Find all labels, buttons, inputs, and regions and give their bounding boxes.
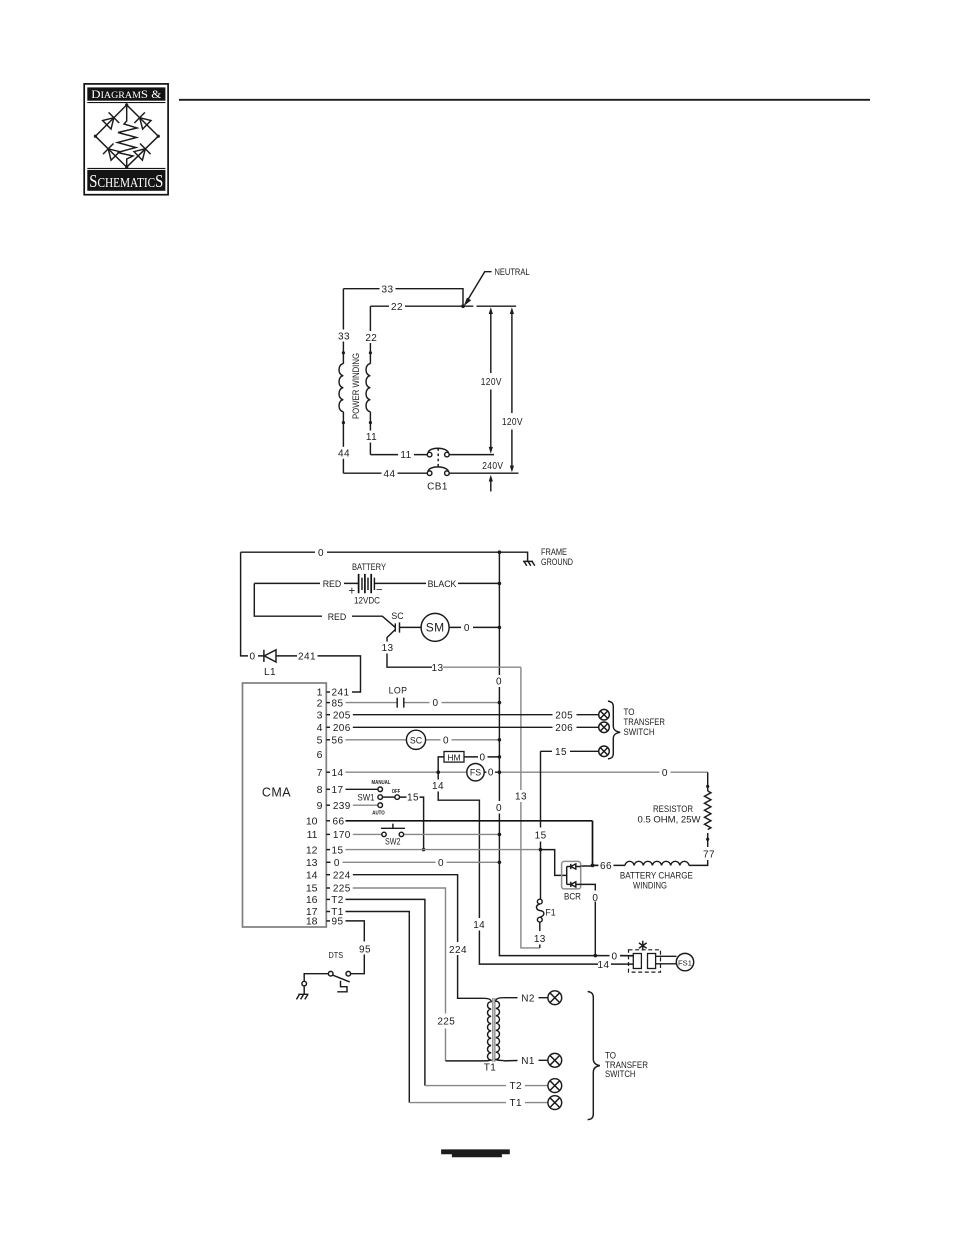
pin 9 wire 239 (326, 804, 330, 806)
wire 14 into FS1 box (611, 963, 633, 965)
svg-text:TO: TO (624, 707, 635, 717)
wire 0 from HM to bus (464, 756, 499, 758)
wire 33 left vertical (342, 289, 344, 474)
svg-text:GROUND: GROUND (541, 557, 573, 567)
junction dot BLACK/bus (498, 582, 502, 586)
frame ground symbol (523, 561, 535, 565)
svg-text:9: 9 (317, 800, 323, 812)
svg-text:13: 13 (432, 663, 444, 674)
svg-text:CMA: CMA (262, 786, 291, 800)
svg-text:7: 7 (317, 767, 323, 779)
lamp terminal T2 (548, 1079, 562, 1093)
wire 0 battery ground top (241, 552, 528, 561)
wire 13 vertical long (521, 667, 540, 948)
svg-text:15: 15 (535, 830, 547, 841)
svg-text:239: 239 (333, 801, 351, 812)
winding B (22-11) of power winding (366, 364, 370, 412)
pin 5 wire 56 + SC coil (326, 739, 330, 741)
svg-text:0: 0 (433, 698, 439, 709)
asterisk (639, 941, 647, 951)
junction dot 66 (591, 864, 595, 868)
wire T1 (409, 1102, 548, 1104)
svg-text:56: 56 (332, 736, 344, 747)
wire RED to SC contact (254, 583, 395, 627)
wire N2 (503, 997, 548, 999)
logo outer border (84, 84, 168, 195)
svg-text:F1: F1 (545, 907, 555, 917)
junction dot 0/frame ground (498, 550, 502, 554)
svg-text:SWITCH: SWITCH (605, 1069, 636, 1079)
svg-text:SM: SM (426, 621, 445, 635)
svg-text:3: 3 (317, 709, 323, 721)
svg-text:0: 0 (334, 858, 340, 869)
svg-text:0: 0 (480, 752, 486, 763)
svg-text:224: 224 (449, 945, 467, 956)
lamp terminal T1 (548, 1096, 562, 1110)
svg-text:POWER WINDING: POWER WINDING (351, 353, 361, 419)
junction dot SW1-15 (422, 848, 426, 852)
svg-text:TRANSFER: TRANSFER (624, 717, 666, 727)
resistor R (0.5 OHM 25W) (707, 772, 709, 791)
junction dot 0/bus (498, 861, 502, 865)
svg-text:205: 205 (333, 710, 351, 721)
svg-text:14: 14 (332, 768, 344, 779)
label TO TRANSFER SWITCH (lower) (605, 1051, 648, 1079)
svg-text:15: 15 (555, 747, 567, 758)
label 33 (vertical) (336, 330, 350, 342)
svg-text:95: 95 (332, 917, 344, 928)
svg-text:10: 10 (306, 816, 318, 828)
svg-text:16: 16 (306, 894, 318, 906)
pin 3 wire 205 (326, 714, 330, 716)
brace TO TRANSFER SWITCH (lower) (588, 992, 600, 1120)
svg-text:−: − (376, 585, 383, 597)
svg-text:BCR: BCR (564, 891, 581, 901)
svg-text:224: 224 (333, 870, 351, 881)
svg-text:FS: FS (470, 768, 481, 778)
junction dot LOP/bus (498, 701, 502, 705)
battery plates (359, 574, 372, 593)
svg-text:OFF: OFF (392, 789, 401, 795)
logo diode top-left (103, 112, 120, 129)
svg-text:44: 44 (384, 469, 396, 480)
svg-text:N2: N2 (521, 993, 535, 1004)
svg-text:240V: 240V (482, 461, 503, 472)
CMA pin numbers 1-18 (306, 687, 323, 928)
svg-text:RED: RED (323, 579, 342, 589)
svg-text:33: 33 (382, 284, 394, 295)
svg-text:AUTO: AUTO (372, 811, 385, 817)
junction dot SM/bus (498, 626, 502, 630)
wire 0 from FS to bus (484, 771, 499, 773)
logo diode top-right (134, 112, 151, 129)
wire BCR top to junction (581, 864, 598, 867)
junction dot 33 winding top (342, 351, 345, 354)
coil SC (406, 730, 425, 749)
svg-text:12: 12 (306, 844, 318, 856)
svg-text:120V: 120V (481, 377, 502, 388)
svg-text:22: 22 (365, 333, 377, 344)
svg-text:CB1: CB1 (427, 482, 448, 493)
svg-text:11: 11 (400, 450, 411, 461)
wire 241 to CMA pin1 (318, 656, 361, 692)
wire 0 into FS1 box (620, 955, 633, 957)
label 44 (vertical) (337, 447, 351, 459)
wire 22 vertical (369, 306, 371, 454)
svg-text:18: 18 (306, 916, 318, 928)
svg-text:8: 8 (317, 784, 323, 796)
svg-text:0: 0 (464, 623, 470, 634)
node NEUTRAL junction dot (461, 304, 465, 308)
svg-text:225: 225 (437, 1017, 455, 1028)
svg-text:RESISTOR: RESISTOR (653, 804, 693, 814)
svg-text:BATTERY: BATTERY (352, 562, 386, 572)
wire 66 corner from pin10 (592, 821, 594, 866)
svg-text:WINDING: WINDING (633, 880, 667, 890)
motor SM (421, 613, 449, 641)
transformer T1 core (493, 998, 495, 1062)
label 33 (horizontal) (380, 283, 396, 294)
svg-text:SWITCH: SWITCH (624, 727, 655, 737)
pin 11 wire 170 + SW2 (326, 833, 330, 835)
svg-text:120V: 120V (502, 417, 523, 428)
pin 13 wire 0 (326, 861, 330, 863)
label 44 (horizontal) (382, 468, 398, 479)
svg-text:66: 66 (600, 861, 612, 872)
svg-text:RED: RED (328, 612, 347, 622)
wire 0 left vertical (L1 branch) (241, 552, 246, 656)
wire 15 from SW1 (400, 797, 424, 850)
svg-text:0: 0 (443, 735, 449, 746)
logo rule under top band (87, 102, 165, 103)
wire 13 from SC contact (387, 630, 432, 668)
svg-text:FRAME: FRAME (541, 547, 567, 557)
fuel solenoid FS (467, 764, 484, 781)
svg-text:0: 0 (592, 893, 598, 904)
dimension 240V lower arrow (490, 480, 492, 492)
wire SC to SM (400, 626, 422, 628)
svg-text:66: 66 (333, 817, 345, 828)
svg-text:241: 241 (332, 688, 350, 699)
logo resistor zigzag (118, 106, 138, 167)
svg-text:T2: T2 (509, 1081, 522, 1092)
junction dot FS/bus (498, 770, 502, 774)
junction dot BCR-0 (594, 954, 598, 958)
svg-text:14: 14 (598, 960, 610, 971)
wire 0 to resistor (501, 771, 708, 773)
junction dot 33 winding bottom (342, 421, 345, 424)
svg-text:13: 13 (306, 857, 318, 869)
junction dot 22 winding top (369, 351, 372, 354)
logo diode bottom-left (103, 144, 120, 161)
lamp terminal 205 (599, 709, 610, 720)
lamp terminal N1 (548, 1053, 562, 1067)
wire 66 to winding (594, 864, 625, 866)
pin 7 wire 14 + FS (326, 771, 330, 773)
logo diamond (bridge) (95, 105, 158, 167)
wires FS1 box to FS1 (656, 956, 677, 964)
pin 10 wire 66 (326, 820, 330, 822)
svg-text:13: 13 (382, 643, 394, 654)
label TO TRANSFER SWITCH (upper) (624, 707, 666, 737)
svg-text:LOP: LOP (389, 685, 408, 695)
svg-text:0.5 OHM, 25W: 0.5 OHM, 25W (638, 815, 702, 825)
svg-text:4: 4 (317, 722, 323, 734)
wire 13 horizontal (443, 666, 521, 668)
svg-text:14: 14 (432, 781, 444, 792)
svg-text:11: 11 (307, 829, 318, 841)
svg-text:241: 241 (298, 652, 316, 663)
svg-text:15: 15 (306, 883, 318, 895)
relay BCR (562, 861, 581, 889)
svg-text:206: 206 (333, 723, 351, 734)
wire BLACK battery (374, 582, 499, 584)
sender FS1 (676, 953, 693, 970)
logo top band (87, 87, 165, 100)
pin 14 wire 224 (326, 874, 330, 876)
svg-text:MANUAL: MANUAL (372, 780, 392, 786)
transformer T1 primary winding (484, 998, 492, 1061)
svg-text:205: 205 (555, 710, 573, 721)
wire 225 to primary bottom (446, 1060, 484, 1062)
svg-text:6: 6 (317, 749, 323, 761)
svg-text:SW1: SW1 (358, 792, 375, 802)
junction dot 170/bus (498, 833, 502, 837)
switch SW1 (MANUAL-OFF-AUTO) (378, 787, 400, 808)
contact LOP (397, 698, 404, 708)
logo DIAGRAMS & SCHEMATICS badge (84, 84, 168, 195)
svg-text:T2: T2 (331, 895, 344, 906)
NEUTRAL leader arrowhead (464, 298, 472, 307)
wire 33 top horizontal (343, 289, 463, 307)
svg-text:T1: T1 (484, 1063, 497, 1074)
wire 15 vertical (to F1) (540, 751, 542, 899)
svg-text:13: 13 (534, 934, 546, 945)
wire DTS to ground (304, 974, 328, 982)
lamp terminal 206 (599, 722, 610, 733)
CMA control board box (243, 683, 327, 927)
pin 15 wire 225 (326, 887, 330, 889)
svg-text:170: 170 (333, 830, 351, 841)
svg-text:2: 2 (317, 697, 323, 709)
svg-text:0: 0 (250, 652, 256, 663)
wire 13 below F1 (539, 922, 541, 948)
pin 16 wire T2 (326, 898, 330, 900)
footer black bar (441, 1149, 510, 1157)
svg-text:206: 206 (555, 723, 573, 734)
pin 12 wire 15 (326, 849, 330, 851)
wire 22 horizontal (370, 305, 473, 307)
svg-text:0: 0 (496, 803, 502, 814)
svg-text:0: 0 (662, 768, 668, 779)
svg-text:BLACK: BLACK (428, 579, 457, 589)
label 22 (vertical) (364, 331, 378, 343)
battery charge winding coil (625, 861, 689, 865)
DTS chassis ground (296, 986, 308, 1000)
svg-text:14: 14 (473, 920, 485, 931)
label 0 (top ground wire) (315, 547, 327, 558)
svg-text:0: 0 (488, 768, 494, 779)
breaker CB1 (427, 448, 449, 475)
hour meter HM (438, 757, 444, 772)
svg-text:0: 0 (438, 858, 444, 869)
pin 1 stub + label 241 (326, 691, 330, 693)
junction dot SC/bus (498, 738, 502, 742)
bus 0 vertical (499, 552, 588, 955)
svg-text:12VDC: 12VDC (354, 595, 381, 605)
pin 2 wire 85 + LOP contact (326, 702, 330, 704)
wire 14 vertical path (438, 774, 598, 964)
svg-text:HM: HM (447, 753, 460, 763)
svg-text:15: 15 (332, 845, 344, 856)
svg-text:22: 22 (391, 302, 403, 313)
wire 15 to BCR (541, 850, 567, 876)
pin 18 wire 95 (326, 920, 330, 922)
svg-text:95: 95 (359, 944, 371, 955)
switch SW2 pushbutton (381, 824, 405, 837)
svg-text:T1: T1 (509, 1098, 522, 1109)
brace TO TRANSFER SWITCH (upper) (608, 701, 620, 759)
lamp terminal 15 (599, 746, 610, 757)
wire 0 bottom to FS1 (588, 955, 633, 957)
svg-text:5: 5 (317, 735, 323, 747)
winding A (33-44) of power winding (339, 364, 343, 412)
NEUTRAL leader line (466, 272, 492, 303)
svg-text:DTS: DTS (329, 951, 344, 960)
FS1 dashed module (629, 950, 661, 972)
wire 15 to transfer switch (541, 750, 599, 752)
battery BT1 (254, 562, 501, 605)
svg-text:BATTERY CHARGE: BATTERY CHARGE (620, 870, 693, 880)
diode L1 (246, 650, 297, 662)
pin 8 wire 17 (326, 788, 330, 790)
fuse F1 (537, 899, 544, 922)
svg-text:0: 0 (496, 677, 502, 688)
pin 4 wire 206 (326, 726, 330, 728)
svg-text:44: 44 (338, 449, 350, 460)
dimension top reference line (477, 305, 517, 307)
switch DTS (328, 971, 350, 991)
svg-text:SW2: SW2 (385, 836, 401, 846)
junction dot 14 (436, 770, 440, 774)
junction dot 15/F1 (539, 848, 543, 852)
dimension line 120V #1 (490, 313, 492, 449)
contact SC (starter contact) (395, 622, 399, 632)
svg-text:SC: SC (410, 735, 423, 745)
junction dot HM/bus (498, 755, 502, 759)
lamp terminal N2 (548, 991, 562, 1005)
junction dot 22 winding bottom (369, 421, 372, 424)
svg-text:14: 14 (306, 869, 318, 881)
wire RED battery (254, 582, 358, 584)
dimension line 120V #2 (511, 313, 513, 467)
svg-text:0: 0 (612, 952, 618, 963)
svg-text:13: 13 (515, 792, 527, 803)
label 11 (horizontal) (398, 449, 414, 460)
label 11 (vertical) (365, 431, 379, 443)
logo bottom band (87, 170, 165, 191)
svg-text:SC: SC (391, 611, 404, 621)
svg-text:33: 33 (338, 332, 350, 343)
DTS ground terminal (302, 981, 307, 986)
label 22 (horizontal) (389, 301, 405, 312)
svg-text:85: 85 (332, 698, 344, 709)
svg-text:77: 77 (703, 849, 715, 860)
wire 0 from BCR down (581, 884, 596, 955)
pin 17 wire T1 (326, 911, 330, 913)
wire T2 (425, 1085, 548, 1087)
svg-text:L1: L1 (264, 667, 276, 678)
svg-text:11: 11 (366, 432, 377, 443)
svg-text:17: 17 (332, 785, 344, 796)
svg-text:+: + (348, 586, 355, 598)
wire 0 from SM to bus (449, 626, 499, 628)
svg-text:NEUTRAL: NEUTRAL (495, 267, 530, 277)
header rule line (179, 99, 870, 101)
svg-text:0: 0 (318, 548, 324, 559)
transformer T1 secondary winding (496, 998, 504, 1061)
wire 44 horizontal (343, 472, 518, 474)
svg-text:15: 15 (407, 793, 419, 804)
logo rule above bottom band (87, 168, 165, 169)
svg-text:N1: N1 (521, 1056, 535, 1067)
wire N1 (503, 1059, 548, 1062)
wire 11 horizontal (370, 454, 494, 456)
logo diode bottom-right (134, 144, 151, 161)
svg-text:225: 225 (333, 884, 351, 895)
svg-text:FS1: FS1 (678, 958, 692, 967)
